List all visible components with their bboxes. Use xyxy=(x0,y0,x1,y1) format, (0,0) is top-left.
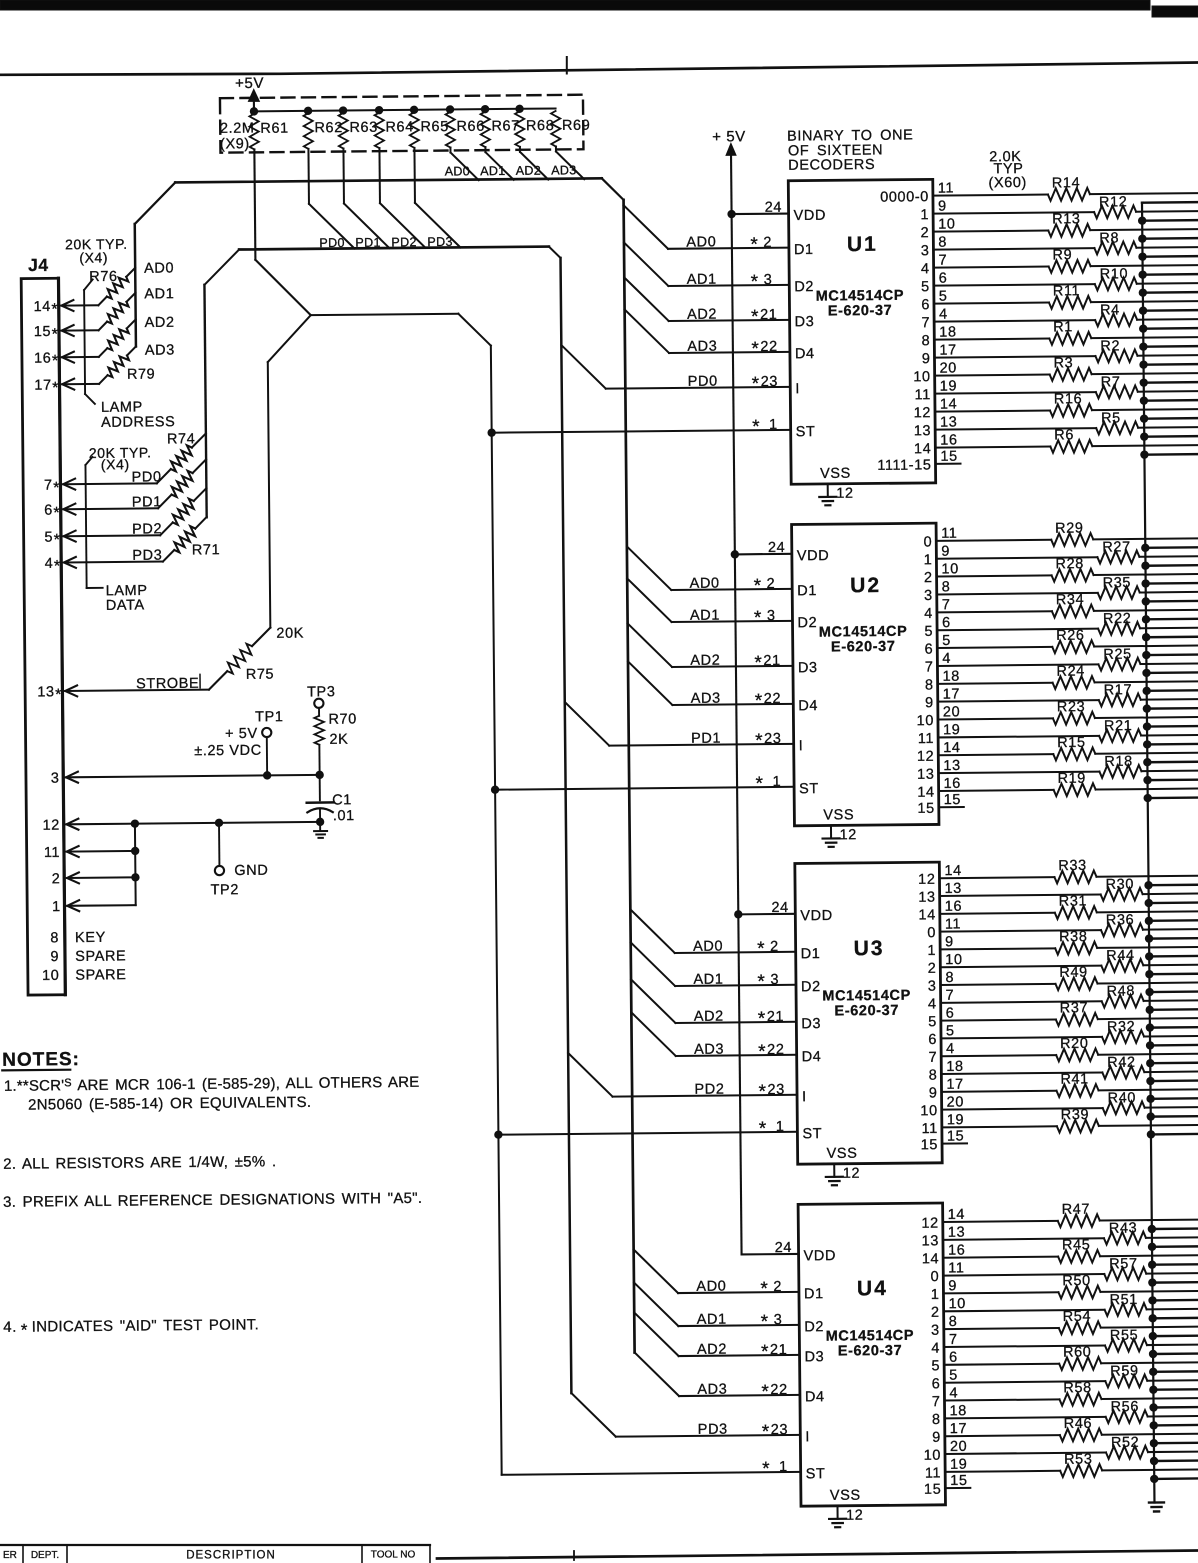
label +5V ±.25 VDC xyxy=(194,726,262,759)
svg-text:TOOL NO: TOOL NO xyxy=(371,1550,416,1561)
resistor R70 (2K) xyxy=(314,707,357,778)
ground (U1 VSS) xyxy=(819,497,836,506)
title block xyxy=(0,1545,430,1563)
wire +5V vertical xyxy=(731,153,742,1255)
resistor R18 (2.0K, U2 out 13, pin 13) xyxy=(917,753,1198,783)
label R75 xyxy=(246,667,275,683)
resistor R74 (20K) xyxy=(171,445,193,471)
U1 pin 24 VDD xyxy=(728,199,826,224)
resistor R56 (2.0K, U4 out 8, pin 18) xyxy=(932,1398,1198,1428)
note 1 SCR types xyxy=(4,1074,420,1114)
power +5V (decoder supply) xyxy=(712,128,746,155)
J4 pin 14 (lamp address) xyxy=(33,268,135,319)
U2 pin 15 stub (output 15) xyxy=(917,792,964,817)
power +5V (pull-up box) xyxy=(235,75,264,115)
U1 pin 15 stub (output 15) xyxy=(877,449,960,474)
wire AD2 pull-up drop xyxy=(520,147,548,180)
resistor R4 (2.0K, U1 out 7, pin 4) xyxy=(921,301,1198,331)
resistor R50 (2.0K, U4 out 1, pin 9) xyxy=(931,1272,1198,1303)
bus taps (U3 section) xyxy=(1145,881,1198,1138)
resistor R57 (2.0K, U4 out 0, pin 11) xyxy=(930,1255,1198,1285)
J4 pin 10 SPARE xyxy=(42,967,127,984)
test point TP3 xyxy=(307,684,336,708)
brace LAMP DATA xyxy=(85,456,147,614)
resistor R11 (2.0K, U1 out 6, pin 5) xyxy=(921,282,1198,313)
resistor R16 (2.0K, U1 out 12, pin 14) xyxy=(913,390,1198,421)
J4 pin 17 (lamp address) xyxy=(34,346,136,397)
J4 pin 5 (lamp data) xyxy=(44,488,207,549)
wire STROBE rail xyxy=(267,313,493,627)
resistor R63 (2.2M pull-up) xyxy=(338,106,378,148)
resistor R2 (2.0K, U1 out 9, pin 17) xyxy=(922,337,1198,367)
capacitor C1 (.01) xyxy=(306,775,354,825)
resistor R71 (20K) xyxy=(174,526,195,552)
U2 pin 2 D1 (AD0) xyxy=(627,545,817,601)
U2 pin 1 ST (strobe) xyxy=(491,773,819,800)
ground (U2 VSS) xyxy=(823,838,840,847)
dashed enclosure (pull-up resistors R61-R69) xyxy=(220,95,584,153)
J4 pin 9 SPARE xyxy=(50,948,126,965)
resistor R68 (2.2M pull-up) xyxy=(515,105,555,147)
heading BINARY TO ONE OF SIXTEEN DECODERS xyxy=(787,127,914,173)
resistor R10 (2.0K, U1 out 5, pin 6) xyxy=(921,265,1198,295)
page edge bar (top) xyxy=(0,0,1198,17)
resistor R49 (2.0K, U3 out 3, pin 8) xyxy=(928,963,1198,994)
U4 pin 12 VSS xyxy=(830,1488,864,1524)
label R71 xyxy=(192,542,221,558)
resistor R51 (2.0K, U4 out 2, pin 10) xyxy=(931,1291,1198,1321)
U2 pin 23 I (PD1) xyxy=(565,700,804,757)
note 3 reference prefix xyxy=(3,1190,422,1211)
resistor R61 (2.2M pull-up) xyxy=(249,107,289,149)
resistor R52 (2.0K, U4 out 10, pin 20) xyxy=(923,1434,1198,1464)
wire AD3 pull-up drop xyxy=(556,146,584,179)
IC U1 (MC14514CP decoder) xyxy=(788,179,935,484)
U3 pin 3 D2 (AD1) xyxy=(631,941,821,997)
wire +5V rail inside box xyxy=(254,108,556,111)
U4 pin 3 D2 (AD1) xyxy=(634,1281,824,1337)
value label 2.2M (X9) xyxy=(220,121,255,153)
U3 pin 23 I (PD2) xyxy=(568,1051,807,1108)
U1 pin 22 D4 (AD3) xyxy=(625,308,815,364)
J4 pin 3 (+5V sense) xyxy=(51,768,320,787)
resistor R31 (2.0K, U3 out 14, pin 16) xyxy=(918,892,1198,923)
U3 pin 1 ST (strobe) xyxy=(495,1118,823,1145)
resistor R21 (2.0K, U2 out 11, pin 19) xyxy=(918,717,1198,747)
U4 pin 1 ST (strobe) xyxy=(502,1458,826,1485)
IC U3 (MC14514CP decoder) xyxy=(795,862,942,1164)
wire ST vertical (to decoders) xyxy=(491,346,502,1475)
label R79 xyxy=(127,367,156,383)
resistor R28 (2.0K, U2 out 2, pin 10) xyxy=(924,555,1198,586)
label R74 xyxy=(167,431,196,447)
J4 pin 13 (strobe) xyxy=(37,628,271,704)
U1 pin 2 D1 (AD0) xyxy=(624,203,814,259)
U2 pin 22 D4 (AD3) xyxy=(628,660,818,716)
label R76 xyxy=(89,269,118,285)
U2 pin 24 VDD xyxy=(731,539,829,564)
IC U2 (MC14514CP decoder) xyxy=(792,523,939,826)
resistor R67 (2.2M pull-up) xyxy=(480,105,520,147)
resistor R65 (2.2M pull-up) xyxy=(409,106,449,148)
resistor R47 (2.0K, U4 out 12, pin 14) xyxy=(921,1200,1198,1231)
resistor R7 (2.0K, U1 out 11, pin 19) xyxy=(914,373,1198,403)
resistor R23 (2.0K, U2 out 10, pin 20) xyxy=(916,698,1198,729)
resistor R58 (2.0K, U4 out 7, pin 4) xyxy=(932,1379,1198,1410)
resistor R32 (2.0K, U3 out 6, pin 5) xyxy=(928,1018,1198,1048)
resistor R20 (2.0K, U3 out 7, pin 4) xyxy=(928,1034,1198,1065)
resistor R30 (2.0K, U3 out 13, pin 13) xyxy=(918,876,1198,906)
resistor R59 (2.0K, U4 out 6, pin 5) xyxy=(931,1362,1198,1392)
U1 pin 12 VSS xyxy=(820,466,854,502)
resistor R37 (2.0K, U3 out 5, pin 6) xyxy=(928,999,1198,1030)
wire AD0 pull-up drop xyxy=(450,147,478,180)
net labels PD0-PD3 (J4 side) xyxy=(132,469,163,564)
J4 pin 1 xyxy=(52,898,136,915)
U4 pin 24 VDD xyxy=(741,1240,836,1265)
net labels AD0-AD3 (top) xyxy=(445,163,577,178)
J4 pin 6 (lamp data) xyxy=(44,459,207,522)
notes heading xyxy=(2,1049,80,1071)
bus taps (U4 section) xyxy=(1148,1225,1198,1483)
net labels AD0-AD3 (J4 side) xyxy=(144,260,175,358)
resistor R9 (2.0K, U1 out 4, pin 7) xyxy=(921,246,1198,277)
resistor R14 (2.0K, U1 out 0, pin 11) xyxy=(880,174,1198,206)
U4 pin 2 D1 (AD0) xyxy=(634,1248,824,1304)
resistor R38 (2.0K, U3 out 1, pin 9) xyxy=(927,928,1198,959)
U1 pin 21 D3 (AD2) xyxy=(624,276,814,332)
U2 pin 12 VSS xyxy=(823,807,857,843)
resistor R60 (2.0K, U4 out 5, pin 6) xyxy=(931,1343,1198,1374)
resistor R6 (2.0K, U1 out 14, pin 16) xyxy=(914,426,1198,457)
resistor R76 (20K) xyxy=(107,277,129,299)
wire AD1 pull-up drop xyxy=(485,147,513,180)
resistor R1 (2.0K, U1 out 8, pin 18) xyxy=(921,318,1198,349)
resistor R3 (2.0K, U1 out 10, pin 20) xyxy=(913,354,1198,385)
J4 pin 12 (ground) xyxy=(43,815,321,834)
resistor R22 (2.0K, U2 out 5, pin 6) xyxy=(924,610,1198,640)
resistor R39 (2.0K, U3 out 11, pin 19) xyxy=(921,1106,1198,1137)
resistor R64 (2.2M pull-up) xyxy=(374,106,414,148)
resistor R72 (20K) xyxy=(172,499,194,525)
resistor R40 (2.0K, U3 out 10, pin 20) xyxy=(920,1089,1198,1119)
brace LAMP ADDRESS xyxy=(84,279,175,431)
resistor R44 (2.0K, U3 out 2, pin 10) xyxy=(927,947,1198,977)
ground (bus) xyxy=(1149,1502,1164,1511)
J4 pin 7 (lamp data) xyxy=(44,433,207,497)
resistor R77 (20K) xyxy=(107,302,129,324)
U3 pin 22 D4 (AD3) xyxy=(631,1011,821,1067)
wire PD0 pull-up drop xyxy=(308,148,354,248)
resistor R54 (2.0K, U4 out 3, pin 8) xyxy=(931,1307,1198,1338)
J4 pin 11 xyxy=(44,844,139,861)
bus taps (U1 section) xyxy=(1138,202,1198,458)
value label 20K TYP (X4) upper xyxy=(65,236,128,266)
U4 pin 15 stub (output 15) xyxy=(924,1473,971,1498)
svg-text:ER: ER xyxy=(3,1550,17,1561)
bus taps (U2 section) xyxy=(1142,543,1198,801)
U3 pin 15 stub (output 15) xyxy=(921,1128,968,1153)
resistor R43 (2.0K, U4 out 13, pin 13) xyxy=(921,1220,1198,1250)
resistor R41 (2.0K, U3 out 9, pin 17) xyxy=(929,1070,1198,1101)
wire ground jumper pins 12/11/2/1 xyxy=(134,824,137,905)
resistor R26 (2.0K, U2 out 6, pin 5) xyxy=(924,626,1198,657)
U1 pin 23 I (PD0) xyxy=(561,343,800,400)
connector J4 xyxy=(21,255,65,995)
U1 pin 3 D2 (AD1) xyxy=(624,241,814,297)
resistor R25 (2.0K, U2 out 7, pin 4) xyxy=(925,646,1198,676)
U3 pin 24 VDD xyxy=(734,899,832,924)
resistor R13 (2.0K, U1 out 2, pin 10) xyxy=(920,210,1198,241)
U3 pin 21 D3 (AD2) xyxy=(631,978,821,1034)
resistor R36 (2.0K, U3 out 0, pin 11) xyxy=(927,911,1198,941)
J4 pin 16 (lamp address) xyxy=(34,319,136,370)
resistor R24 (2.0K, U2 out 8, pin 18) xyxy=(925,662,1198,693)
resistor R79 (20K) xyxy=(107,355,129,377)
label STROBE xyxy=(136,674,200,692)
resistor R42 (2.0K, U3 out 8, pin 18) xyxy=(929,1054,1198,1084)
svg-text:DEPT.: DEPT. xyxy=(31,1550,59,1561)
J4 pin 15 (lamp address) xyxy=(33,293,135,344)
U4 pin 22 D4 (AD3) xyxy=(635,1351,825,1407)
ground bus (lamp return) xyxy=(1142,203,1154,1503)
resistor R34 (2.0K, U2 out 4, pin 7) xyxy=(924,591,1198,622)
IC U4 (MC14514CP decoder) xyxy=(798,1203,945,1506)
wire PD bus rail xyxy=(204,246,563,517)
resistor R8 (2.0K, U1 out 3, pin 8) xyxy=(921,229,1198,259)
ground (U3 VSS) xyxy=(826,1177,843,1186)
wire AD bus vertical (to decoders) xyxy=(624,200,635,1353)
resistor R78 (20K) xyxy=(107,328,129,350)
J4 pin 2 xyxy=(52,871,140,888)
wire PD3 pull-up drop xyxy=(414,147,460,247)
U3 pin 2 D1 (AD0) xyxy=(630,908,820,964)
wire PD bus vertical (to decoders) xyxy=(561,258,572,1393)
wire PD1 pull-up drop xyxy=(343,148,389,248)
wire AD bus rail (top) xyxy=(134,178,625,346)
note 2 resistors xyxy=(3,1153,276,1173)
svg-text:DESCRIPTION: DESCRIPTION xyxy=(186,1550,276,1562)
value label 2.0K TYP (X60) xyxy=(988,149,1027,191)
U4 pin 21 D3 (AD2) xyxy=(634,1311,824,1367)
resistor R53 (2.0K, U4 out 11, pin 19) xyxy=(925,1450,1198,1481)
U2 pin 3 D2 (AD1) xyxy=(627,577,817,633)
test point TP2 (GND) xyxy=(210,822,269,898)
ground (C1) xyxy=(314,818,327,838)
resistor R12 (2.0K, U1 out 1, pin 9) xyxy=(920,193,1198,223)
ground (U4 VSS) xyxy=(829,1519,846,1528)
resistor R33 (2.0K, U3 out 12, pin 14) xyxy=(918,857,1198,888)
resistor R35 (2.0K, U2 out 3, pin 8) xyxy=(924,574,1198,604)
border line (top) xyxy=(0,57,1198,75)
note 4 test points xyxy=(3,1316,259,1339)
value label 20K TYP (X4) lower xyxy=(89,444,152,472)
J4 pin 4 (lamp data) xyxy=(44,517,207,575)
U3 pin 12 VSS xyxy=(827,1146,861,1182)
resistor R46 (2.0K, U4 out 9, pin 17) xyxy=(932,1414,1198,1445)
resistor R66 (2.2M pull-up) xyxy=(445,105,485,147)
resistor R73 (20K) xyxy=(171,471,193,497)
resistor R45 (2.0K, U4 out 14, pin 16) xyxy=(922,1236,1198,1267)
wire R61 to strobe rail xyxy=(254,149,310,316)
resistor R69 (2.2M pull-up) xyxy=(551,111,591,147)
resistor R29 (2.0K, U2 out 0, pin 11) xyxy=(923,519,1198,550)
resistor R62 (2.2M pull-up) xyxy=(303,107,343,149)
resistor R27 (2.0K, U2 out 1, pin 9) xyxy=(924,539,1198,569)
test point TP1 xyxy=(255,709,284,779)
resistor R19 (2.0K, U2 out 14, pin 16) xyxy=(917,769,1198,800)
U2 pin 21 D3 (AD2) xyxy=(628,622,818,678)
resistor R48 (2.0K, U3 out 4, pin 7) xyxy=(928,983,1198,1013)
U1 pin 1 ST (strobe) xyxy=(488,416,816,443)
resistor R17 (2.0K, U2 out 9, pin 17) xyxy=(925,681,1198,711)
border line (bottom) xyxy=(437,1551,1198,1561)
J4 pin 8 KEY xyxy=(50,930,106,947)
net labels PD0-PD3 (top) xyxy=(319,235,453,250)
resistor R5 (2.0K, U1 out 13, pin 13) xyxy=(914,409,1198,439)
wire PD2 pull-up drop xyxy=(379,148,425,248)
resistor R55 (2.0K, U4 out 4, pin 7) xyxy=(931,1327,1198,1357)
resistor R75 (20K) xyxy=(227,644,252,674)
value label 20K xyxy=(276,626,304,642)
resistor R15 (2.0K, U2 out 12, pin 14) xyxy=(917,734,1198,765)
U4 pin 23 I (PD3) xyxy=(571,1391,810,1448)
